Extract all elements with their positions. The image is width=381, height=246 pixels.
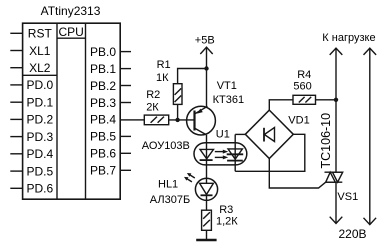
svg-text:1К: 1К bbox=[156, 72, 169, 84]
svg-text:560: 560 bbox=[293, 81, 311, 93]
svg-text:R1: R1 bbox=[157, 59, 171, 71]
svg-text:VT1: VT1 bbox=[217, 80, 237, 92]
pin PB.7 bbox=[90, 164, 131, 178]
svg-text:PD.6: PD.6 bbox=[26, 182, 53, 196]
U1 photothyristor bbox=[227, 134, 244, 171]
svg-text:PD.0: PD.0 bbox=[26, 78, 53, 92]
svg-text:АЛ307Б: АЛ307Б bbox=[150, 194, 190, 206]
svg-text:HL1: HL1 bbox=[158, 178, 178, 190]
svg-text:R2: R2 bbox=[146, 89, 160, 101]
svg-text:PB.3: PB.3 bbox=[90, 96, 116, 110]
svg-text:PB.0: PB.0 bbox=[90, 45, 116, 59]
svg-text:R4: R4 bbox=[297, 69, 311, 81]
wire PB.4 to R2 bbox=[131, 119, 144, 121]
pin PB.1 bbox=[90, 62, 131, 76]
wire photothyristor cathode to bridge right bbox=[235, 134, 305, 171]
svg-text:ATtiny2313: ATtiny2313 bbox=[41, 4, 101, 18]
node junction +5V rail bbox=[204, 66, 208, 70]
svg-text:КТ361: КТ361 bbox=[213, 94, 244, 106]
IC DD1 ATtiny2313 body bbox=[23, 23, 121, 199]
pin PD.1 bbox=[10, 96, 53, 110]
resistor R3 bbox=[202, 210, 212, 230]
svg-text:U1: U1 bbox=[216, 129, 230, 141]
svg-text:PD.4: PD.4 bbox=[26, 147, 53, 161]
diode bridge VD1 bbox=[245, 110, 293, 158]
wire left rail lower with arrow to 220V bbox=[330, 182, 343, 223]
pin PB.6 bbox=[90, 147, 131, 161]
svg-text:2К: 2К bbox=[146, 102, 159, 114]
svg-text:АОУ103В: АОУ103В bbox=[142, 140, 190, 152]
wire R1 top lead bbox=[178, 69, 207, 84]
pin PB.2 bbox=[90, 79, 131, 93]
svg-text:PD.2: PD.2 bbox=[26, 113, 53, 127]
LED HL1 bbox=[195, 178, 217, 200]
resistor R4 bbox=[293, 95, 316, 104]
wire photothyristor anode to bridge left bbox=[235, 133, 245, 135]
svg-text:CPU: CPU bbox=[59, 25, 84, 39]
svg-text:PB.7: PB.7 bbox=[90, 164, 116, 178]
svg-text:PB.5: PB.5 bbox=[90, 130, 116, 144]
wire collector down through optocoupler LED to HL1 bbox=[206, 135, 208, 183]
pin XL2 bbox=[10, 61, 50, 75]
svg-text:PB.2: PB.2 bbox=[90, 79, 116, 93]
pin PD.2 bbox=[10, 113, 53, 127]
svg-text:PD.1: PD.1 bbox=[26, 96, 53, 110]
svg-text:VD1: VD1 bbox=[288, 114, 309, 126]
wire gate from bridge bottom to triac bbox=[269, 159, 325, 189]
svg-text:К нагрузке: К нагрузке bbox=[322, 32, 375, 44]
wire HL1 to R3 bbox=[206, 195, 208, 210]
svg-text:PB.6: PB.6 bbox=[90, 147, 116, 161]
pin PD.0 bbox=[10, 78, 53, 92]
triac VS1 bbox=[325, 172, 344, 182]
pin PD.6 bbox=[10, 182, 53, 196]
pin PD.3 bbox=[10, 130, 53, 144]
wire R4 to left rail bbox=[316, 99, 337, 101]
wire left rail upper with arrow to load bbox=[330, 48, 343, 172]
pin PD.5 bbox=[10, 164, 53, 178]
svg-text:XL1: XL1 bbox=[29, 44, 51, 58]
wire R1 bottom lead bbox=[177, 104, 179, 120]
HL1 emission arrows bbox=[184, 173, 195, 182]
node junction rail/R4 bbox=[334, 98, 338, 102]
svg-text:ТС106-10: ТС106-10 bbox=[319, 113, 333, 169]
wire R2 to transistor base bbox=[169, 119, 195, 121]
ground bbox=[196, 239, 216, 241]
power +5V arrow bbox=[200, 47, 212, 107]
svg-text:XL2: XL2 bbox=[29, 61, 51, 75]
wire right rail 220V line with arrows both ends bbox=[364, 48, 377, 225]
svg-text:1,2К: 1,2К bbox=[216, 216, 238, 228]
U1 emitting diode bbox=[200, 149, 214, 160]
wire R3 to ground bbox=[206, 230, 208, 240]
pin PB.3 bbox=[90, 96, 131, 110]
svg-text:PD.5: PD.5 bbox=[26, 164, 53, 178]
svg-text:R3: R3 bbox=[219, 204, 233, 216]
pin PB.5 bbox=[90, 130, 131, 144]
svg-text:RST: RST bbox=[28, 27, 53, 41]
U1 coupling arrows bbox=[215, 150, 228, 160]
wire bridge top to R4 bbox=[269, 100, 293, 110]
svg-text:+5В: +5В bbox=[195, 35, 215, 47]
op-to coupler U1 body bbox=[194, 143, 247, 165]
svg-text:VS1: VS1 bbox=[337, 191, 358, 203]
pin RST bbox=[10, 27, 52, 41]
pin PD.4 bbox=[10, 147, 53, 161]
transistor VT1 KT361 bbox=[187, 106, 216, 135]
node junction R1/R2/base bbox=[175, 118, 179, 122]
svg-text:PB.1: PB.1 bbox=[90, 62, 116, 76]
resistor R2 bbox=[144, 115, 168, 125]
pin PB.4 bbox=[90, 113, 131, 127]
pin PB.0 bbox=[90, 45, 131, 59]
svg-text:PB.4: PB.4 bbox=[90, 113, 116, 127]
pin XL1 bbox=[10, 44, 50, 58]
svg-text:220В: 220В bbox=[339, 227, 367, 241]
resistor R1 bbox=[173, 84, 182, 105]
svg-text:PD.3: PD.3 bbox=[26, 130, 53, 144]
